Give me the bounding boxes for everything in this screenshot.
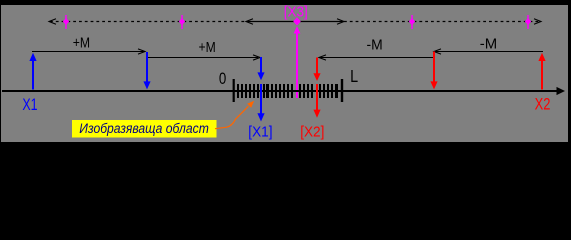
-M arrow 2 — [319, 55, 434, 60]
svg-text:[X2]: [X2] — [300, 124, 324, 141]
svg-text:X1: X1 — [22, 95, 37, 114]
blue arrow image2 down lower part — [257, 84, 264, 122]
svg-text:0: 0 — [219, 69, 226, 88]
blue arrow image2 down upper part — [257, 57, 264, 80]
imaging region hatch left boundary bar — [233, 79, 235, 102]
svg-text:[X3]: [X3] — [284, 3, 308, 20]
svg-text:-M: -M — [480, 36, 497, 53]
svg-text:X2: X2 — [535, 95, 551, 114]
+M arrow 1 — [32, 49, 145, 54]
svg-text:-M: -M — [367, 37, 383, 54]
red arrow image2 down upper part — [313, 58, 320, 82]
yellow callout box — [72, 120, 217, 138]
blue arrow image1 down — [143, 52, 150, 89]
gray background — [1, 5, 568, 142]
svg-text:[X1]: [X1] — [248, 124, 272, 141]
red arrow image2 down lower part — [313, 84, 320, 118]
svg-text:+M: +M — [73, 34, 90, 51]
red arrow X2 up — [538, 53, 545, 90]
+M arrow 2 — [148, 55, 260, 60]
svg-text:Изобразяваща област: Изобразяваща област — [79, 121, 209, 136]
imaging region hatch right boundary bar — [341, 79, 343, 102]
red arrow image1 down — [430, 52, 437, 90]
-M arrow 1 — [434, 49, 543, 54]
orange leader arrow — [215, 101, 254, 129]
dashed image line left segment — [50, 21, 246, 23]
main axis — [2, 87, 565, 95]
blue arrow X1 up — [29, 53, 36, 90]
imaging region hatch bars — [237, 84, 338, 98]
magenta tick 2 — [179, 15, 185, 29]
solid double arrow span — [246, 19, 344, 25]
magenta arrow X3 up — [294, 26, 301, 98]
magenta node diamond X3 — [293, 17, 301, 25]
magenta tick 3 — [409, 15, 415, 29]
left open arrowhead of dashed line — [49, 19, 56, 25]
svg-text:L: L — [350, 66, 358, 86]
magenta tick 1 — [63, 15, 69, 29]
magenta tick 4 — [525, 15, 531, 29]
black frame — [0, 0, 571, 144]
right open arrowhead of dashed line — [534, 19, 541, 25]
svg-text:+M: +M — [199, 39, 216, 56]
dashed image line right segment — [344, 21, 540, 23]
